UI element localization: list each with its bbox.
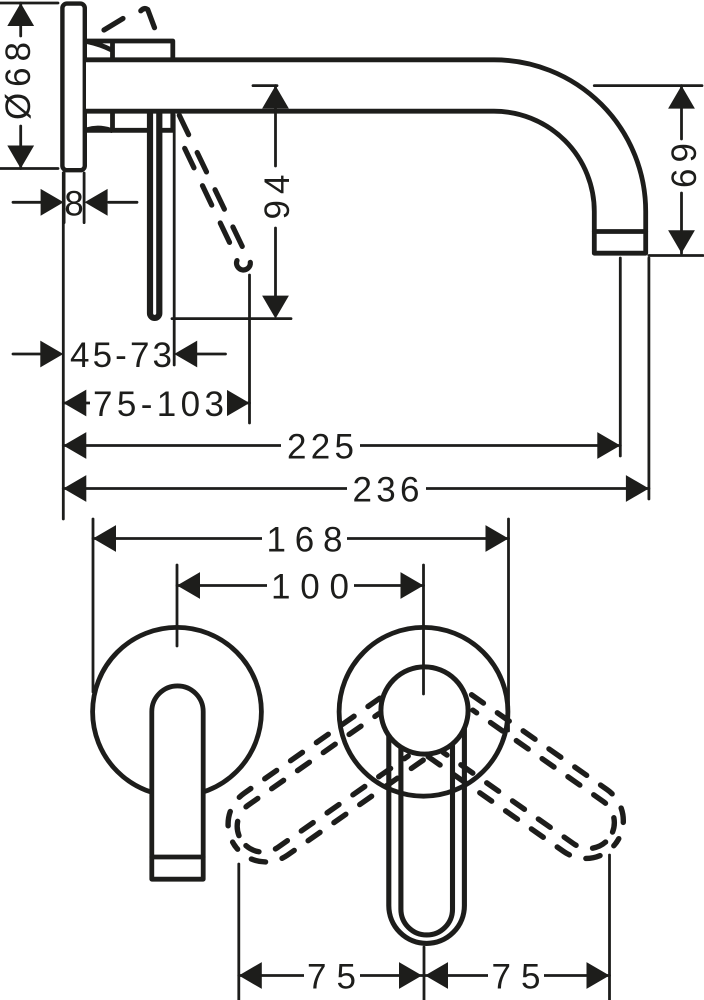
dimension 168: arrowheads: [93, 525, 509, 552]
dimension 69: dimension line: [680, 86, 683, 254]
dimension 75 arrowheads: [239, 962, 610, 989]
text Ø68: [3, 38, 36, 124]
dimension 94: top tick: [253, 84, 277, 87]
dashed loop handle rotated left: [213, 698, 423, 877]
svg-text:225: 225: [287, 428, 354, 467]
extension line spout center (100): [176, 565, 179, 646]
dimension Ø68: dimension line: [19, 3, 22, 169]
dimension 75 left: dimension line: [239, 974, 424, 977]
text 236: [347, 473, 426, 506]
text 75 left: [304, 960, 360, 993]
dimension 168: dimension line: [93, 537, 509, 540]
dimension 94: dimension line: [274, 86, 277, 300]
text 75 right: [488, 960, 544, 993]
wall face extension line: [62, 173, 65, 519]
dimension 100: dimension line: [177, 584, 424, 587]
dimension 45-73: arrowheads: [40, 341, 197, 368]
spout front view body: [152, 686, 203, 879]
dashed loop handle rotated right: [428, 695, 638, 874]
dimension 8: leaders: [13, 201, 137, 204]
extension line left dashed loop tip (75): [237, 864, 240, 1000]
handle escutcheon circle (front view): [339, 627, 508, 796]
spout escutcheon circle (front view): [93, 627, 262, 796]
solid loop handle outer outline: [389, 710, 465, 943]
dimension 225: dimension line: [63, 444, 620, 447]
outlet center extension line: [619, 258, 622, 456]
spout front view aerator band: [152, 855, 203, 860]
extension line right escutcheon outer edge (168): [507, 519, 510, 731]
dashed lever forward position, right edge dashes: [179, 115, 243, 248]
dimension 236: dimension line: [63, 487, 649, 490]
text 168: [262, 523, 347, 556]
svg-text:8: 8: [64, 185, 83, 224]
svg-text:45-73: 45-73: [70, 336, 172, 375]
dashed lever up-position tip hook: [141, 9, 155, 28]
top mounting tab behind spout: [87, 41, 173, 58]
lever handle rod (down position, side view): [150, 112, 159, 318]
lever tip extension line: [173, 115, 176, 365]
dimension 94: arrowheads: [262, 86, 289, 319]
dimension 75-103: arrowheads: [63, 390, 249, 417]
dimension 225: arrowheads: [63, 432, 620, 459]
dimension Ø68: extension ticks: [0, 3, 58, 169]
extension line handle center (100): [422, 565, 425, 694]
svg-text:236: 236: [353, 471, 420, 510]
dimension 94: bottom tick: [172, 317, 291, 320]
handle knob circle: [381, 667, 468, 754]
extension line loop center (75/75): [423, 947, 426, 1000]
dimension 8: arrowheads: [41, 189, 108, 216]
solid loop handle inner outline: [401, 712, 453, 935]
dashed lever forward position tip hook: [237, 261, 251, 270]
dimension 45-73: leaders: [13, 353, 226, 356]
dimension 69: bottom tick: [649, 254, 703, 257]
dimension 75 right: dimension line: [424, 974, 610, 977]
svg-text:Ø68: Ø68: [0, 42, 38, 120]
svg-text:168: 168: [267, 521, 343, 560]
text 75-103: [90, 387, 227, 420]
dimension 100: arrowheads: [177, 572, 424, 599]
extension line right dashed loop tip (75): [608, 855, 611, 1000]
dimension 69: top tick: [594, 84, 702, 87]
aerator band on spout outlet: [594, 229, 645, 234]
text 94: [259, 168, 292, 226]
dashed lever forward position, left edge dashes: [185, 148, 232, 246]
text 100: [267, 570, 354, 603]
text 225: [281, 430, 360, 463]
wall flange (side view): [62, 4, 84, 171]
dimension 75-103: dimension line: [63, 402, 249, 405]
outlet outer edge extension line: [648, 258, 651, 499]
bottom mounting tab behind lever: [87, 114, 173, 131]
dimension 236: arrowheads: [63, 475, 649, 502]
extension line left escutcheon outer edge (168): [92, 519, 95, 692]
dimension Ø68: arrowheads: [7, 3, 34, 169]
dashed lever tip extension line: [248, 275, 251, 423]
spout tube (side view) with curved outlet: [86, 60, 646, 253]
dimension 8: extension lines: [64, 173, 84, 223]
dimension 69: arrowheads: [668, 86, 695, 254]
dashed lever up-position dash: [104, 19, 123, 31]
svg-text:100: 100: [271, 568, 349, 607]
text 69: [666, 141, 699, 191]
